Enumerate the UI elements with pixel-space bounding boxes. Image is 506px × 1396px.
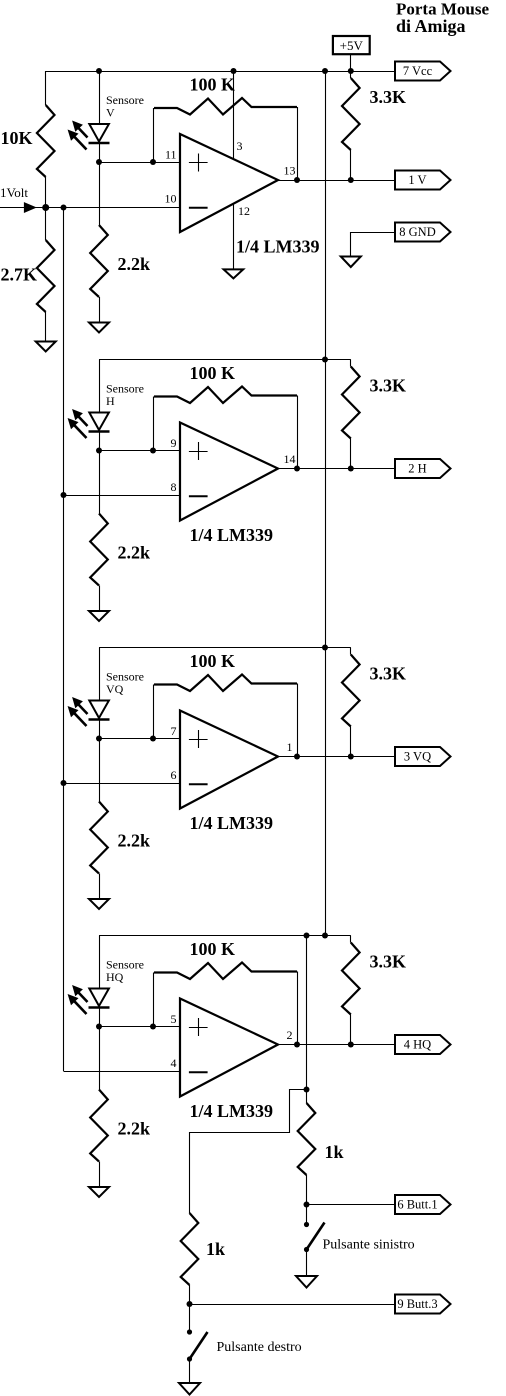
pin 5 label (U1D + input) [171,1012,177,1026]
svg-text:Pulsante destro: Pulsante destro [217,1340,302,1355]
svg-text:13: 13 [284,164,296,178]
wire: U1C output (stage VQ) [278,756,395,758]
wire: H + node down to 2.2k [99,451,101,514]
resistor 3.3K (pull-up, stage H) [342,360,360,469]
junction: rail / +5V bus [322,68,328,74]
svg-text:1Volt: 1Volt [0,185,28,200]
label 1/4 LM339 (stage H) [190,525,274,545]
resistor 2.2k (stage HQ) [90,1090,108,1188]
label Sensore H [106,382,144,409]
junction: rail H / +5V bus [322,357,328,363]
svg-text:1: 1 [287,740,293,754]
ground (below Pulsante destro) [179,1383,200,1395]
svg-text:7: 7 [171,724,177,738]
junction: output / feedback (stage HQ) [294,1042,300,1048]
connector 8 GND [395,223,451,242]
label 2.2k (stage HQ) [118,1119,151,1139]
label 100 K (stage HQ) [190,939,236,959]
wire: sensor VQ anode to + input [99,720,180,739]
svg-text:HQ: HQ [106,970,124,984]
svg-text:4 HQ: 4 HQ [404,1038,431,1052]
label 1/4 LM339 (stage VQ) [190,813,274,833]
resistor 3.3K (pull-up, stage HQ) [342,936,360,1045]
resistor 100 K (feedback, stage V) [154,98,298,180]
pin 1 label (U1C output) [287,740,293,754]
pin 11 label (U1A + input) [165,148,177,162]
junction: pull-up column / 1k wires [304,1087,310,1093]
photodiode Sensore H [89,413,110,432]
svg-text:2.2k: 2.2k [118,831,151,851]
photodiode Sensore VQ [89,701,110,720]
svg-text:6 Butt.1: 6 Butt.1 [397,1198,437,1212]
junction: output / 3.3K (stage VQ) [348,754,354,760]
svg-text:5: 5 [171,1012,177,1026]
op-amp U1C (1/4 LM339, stage VQ) [180,711,278,809]
resistor 100 K (feedback, stage H) [154,387,298,469]
label 1/4 LM339 (stage V) [236,236,320,256]
junction: output / 3.3K (stage H) [348,466,354,472]
light arrows (Sensore V) [69,122,88,150]
wire: sensor H anode to + input [99,432,180,451]
label Pulsante sinistro [323,1238,415,1253]
wire: 6 Butt.1 line [307,1204,396,1206]
pin 3 label (U1A V+) [237,139,243,153]
svg-text:2: 2 [287,1028,293,1042]
wire: switch sinistro to ground [306,1250,308,1277]
label 100 K (stage VQ) [190,651,236,671]
junction: rail / pin 3 [231,68,237,74]
svg-text:1k: 1k [325,1142,344,1162]
wire: U1D output (stage HQ) [278,1044,395,1046]
svg-text:1k: 1k [206,1239,225,1259]
wire: sensor HQ cathode lead [99,936,101,989]
wire: main +5V bus (vertical) [325,71,327,936]
junction: rail HQ / button pull-up column [304,933,310,939]
pin 10 label (U1A - input) [165,192,177,206]
svg-text:10K: 10K [1,128,33,148]
wire: pin 12 to ground [233,204,235,270]
svg-text:12: 12 [238,204,250,218]
wire: reference to - input (stage HQ) [64,1071,181,1073]
wire: reference to - input (stage H) [64,495,181,497]
junction: reference rail tap [61,205,67,211]
resistor 1k (Butt.1 pull-down) [298,1103,316,1205]
junction: output / 3.3K (stage V) [348,177,354,183]
photodiode Sensore V [89,124,110,143]
resistor 3.3K (pull-up, stage V) [342,71,360,180]
svg-text:3.3K: 3.3K [370,87,407,107]
svg-text:4: 4 [171,1056,177,1070]
wire: HQ rail to button pull-ups (vertical) [306,936,308,1104]
photodiode Sensore HQ [89,989,110,1008]
wire: U1B output (stage H) [278,468,395,470]
junction: rail HQ / +5V bus [322,933,328,939]
label 1Volt [0,185,28,200]
wire: 1Volt input arrow [0,203,46,212]
wire: +5V rail (stage VQ) [99,647,351,649]
pin 6 label (U1C - input) [171,768,177,782]
ground (below Pulsante sinistro) [296,1276,317,1288]
connector 7 Vcc [395,62,451,81]
junction: Butt.1 / switch [304,1202,310,1208]
svg-text:7 Vcc: 7 Vcc [403,64,433,78]
switch Pulsante sinistro [304,1222,325,1252]
ground (below 2.2k, stage V) [89,323,109,333]
junction: rail VQ / +5V bus [322,645,328,651]
junction: rail / sensor V column [96,68,102,74]
junction: feedback / + input (stage HQ) [150,1024,156,1030]
label 3.3K (stage VQ) [370,664,407,684]
svg-text:1/4 LM339: 1/4 LM339 [190,1101,274,1121]
svg-text:VQ: VQ [106,682,124,696]
wire: 9 Butt.3 line [190,1304,396,1306]
svg-text:+5V: +5V [340,38,364,53]
svg-text:9: 9 [171,436,177,450]
wire: Butt.3 to switch [189,1304,191,1332]
junction: output / feedback (stage H) [294,466,300,472]
svg-text:2 H: 2 H [408,462,426,476]
wire: HQ + node down to 2.2k [99,1027,101,1090]
svg-text:di Amiga: di Amiga [396,16,466,36]
node: sensor HQ / + input [96,1024,102,1030]
pin 8 label (U1B - input) [171,480,177,494]
junction: Butt.3 / switch [187,1301,193,1307]
svg-text:2.2k: 2.2k [118,254,151,274]
resistor 10K [37,71,55,208]
light arrows (Sensore H) [69,410,88,438]
pin 7 label (U1C + input) [171,724,177,738]
node: sensor H / + input [96,448,102,454]
wire: 8 GND to ground [351,232,396,257]
svg-text:100 K: 100 K [190,75,236,95]
label Pulsante destro [217,1340,302,1355]
resistor 100 K (feedback, stage HQ) [154,963,298,1045]
label 2.7K [1,265,38,285]
pin 12 label (U1A V-) [238,204,250,218]
resistor 2.2k (stage VQ) [90,802,108,900]
svg-text:100 K: 100 K [190,939,236,959]
connector 3 VQ [395,747,451,766]
label 3.3K (stage H) [370,376,407,396]
wire: U1A output (stage V) [278,180,395,182]
junction: output / feedback (stage V) [294,177,300,183]
label 3.3K (stage HQ) [370,952,407,972]
svg-text:9 Butt.3: 9 Butt.3 [397,1297,437,1311]
svg-text:2.2k: 2.2k [118,543,151,563]
resistor 2.2k (stage V) [90,225,108,323]
ground (below 2.2k, stage H) [89,611,109,621]
light arrows (Sensore VQ) [69,698,88,726]
svg-text:1/4 LM339: 1/4 LM339 [190,525,274,545]
svg-text:100 K: 100 K [190,363,236,383]
label 2.2k (stage H) [118,543,151,563]
wire: reference to - input (stage VQ) [64,783,181,785]
label 2.2k (stage V) [118,254,151,274]
label 10K [1,128,33,148]
svg-text:1 V: 1 V [408,173,426,187]
wire: +5V box lead [350,54,352,71]
wire: sensor V cathode lead [99,71,101,124]
junction: rail / 3.3K stage 1 [348,68,354,74]
svg-text:3 VQ: 3 VQ [404,750,431,764]
wire: sensor VQ cathode lead [99,648,101,701]
label Sensore VQ [106,670,144,697]
pin 4 label (U1D - input) [171,1056,177,1070]
pin 9 label (U1B + input) [171,436,177,450]
wire: +5V rail (stage H) [99,359,351,361]
svg-text:3.3K: 3.3K [370,952,407,972]
node: 1Volt reference node [42,204,49,211]
svg-text:8: 8 [171,480,177,494]
ground (below 2.2k, stage VQ) [89,899,109,909]
svg-text:100 K: 100 K [190,651,236,671]
wire: sensor V anode to + input [99,143,180,163]
svg-text:2.2k: 2.2k [118,1119,151,1139]
op-amp U1B (1/4 LM339, stage H) [180,423,278,521]
junction: reference rail / - input (stage H) [61,492,67,498]
wire: reference rail (vertical) [63,208,65,1072]
resistor 100 K (feedback, stage VQ) [154,675,298,757]
pin 14 label (U1B output) [284,452,296,466]
junction: output / feedback (stage VQ) [294,754,300,760]
wire: +5V top rail (stage 1) [46,71,395,73]
wire: reference to - input (stage V) [46,207,180,209]
svg-text:2.7K: 2.7K [1,265,38,285]
ground (below 2.2k, stage HQ) [89,1187,109,1197]
title: Porta Mouse di Amiga [396,0,489,36]
connector 4 HQ [395,1035,451,1054]
op-amp U1A (1/4 LM339, stage V) [180,134,278,232]
svg-text:3: 3 [237,139,243,153]
ground (below 2.7K) [36,342,56,352]
switch Pulsante destro [187,1329,208,1361]
wire: +5V rail (stage HQ) [99,935,351,937]
svg-text:11: 11 [165,148,177,162]
svg-text:8 GND: 8 GND [399,225,435,239]
wire: Butt.1 to switch [306,1205,308,1225]
label 3.3K (stage V) [370,87,407,107]
wire: jog to left 1k [190,1090,307,1214]
svg-text:3.3K: 3.3K [370,376,407,396]
svg-text:H: H [106,394,115,408]
label 1k (right) [325,1142,344,1162]
pin 2 label (U1D output) [287,1028,293,1042]
label 100 K (stage V) [190,75,236,95]
node: sensor V / + input [96,159,102,165]
junction: output / 3.3K (stage HQ) [348,1042,354,1048]
svg-text:3.3K: 3.3K [370,664,407,684]
wire: sensor H cathode lead [99,360,101,413]
light arrows (Sensore HQ) [69,986,88,1014]
resistor 3.3K (pull-up, stage VQ) [342,648,360,757]
node: sensor VQ / + input [96,736,102,742]
connector 6 Butt.1 [395,1195,451,1214]
junction: reference rail / - input (stage VQ) [61,780,67,786]
wire: switch destro to ground [189,1359,191,1383]
label 1k (left) [206,1239,225,1259]
resistor 2.2k (stage H) [90,514,108,612]
junction: feedback / + input (stage V) [150,159,156,165]
ground (below pin 12) [224,269,244,278]
wire: sensor HQ anode to + input [99,1008,180,1027]
junction: feedback / + input (stage VQ) [150,736,156,742]
svg-text:V: V [106,106,115,120]
connector 9 Butt.3 [395,1295,451,1314]
svg-text:Pulsante sinistro: Pulsante sinistro [323,1238,415,1253]
svg-text:1/4 LM339: 1/4 LM339 [236,236,320,256]
label 2.2k (stage VQ) [118,831,151,851]
svg-text:1/4 LM339: 1/4 LM339 [190,813,274,833]
wire: V + node down to 2.2k [99,162,101,225]
pin 13 label (U1A output) [284,164,296,178]
svg-text:14: 14 [284,452,296,466]
connector 2 H [395,459,451,478]
ground (below 8 GND wire) [341,257,361,268]
connector 1 V [395,171,451,190]
resistor 1k (Butt.3 pull-down) [181,1213,199,1304]
+5V supply box [333,36,370,54]
label Sensore V [106,93,144,120]
junction: feedback / + input (stage H) [150,448,156,454]
svg-text:6: 6 [171,768,177,782]
resistor 2.7K [37,208,55,342]
label Sensore HQ [106,958,144,985]
label 1/4 LM339 (stage HQ) [190,1101,274,1121]
op-amp U1D (1/4 LM339, stage HQ) [180,999,278,1097]
label 100 K (stage H) [190,363,236,383]
wire: VQ + node down to 2.2k [99,739,101,802]
wire: pin 3 to +5V rail [233,71,235,159]
svg-text:10: 10 [165,192,177,206]
